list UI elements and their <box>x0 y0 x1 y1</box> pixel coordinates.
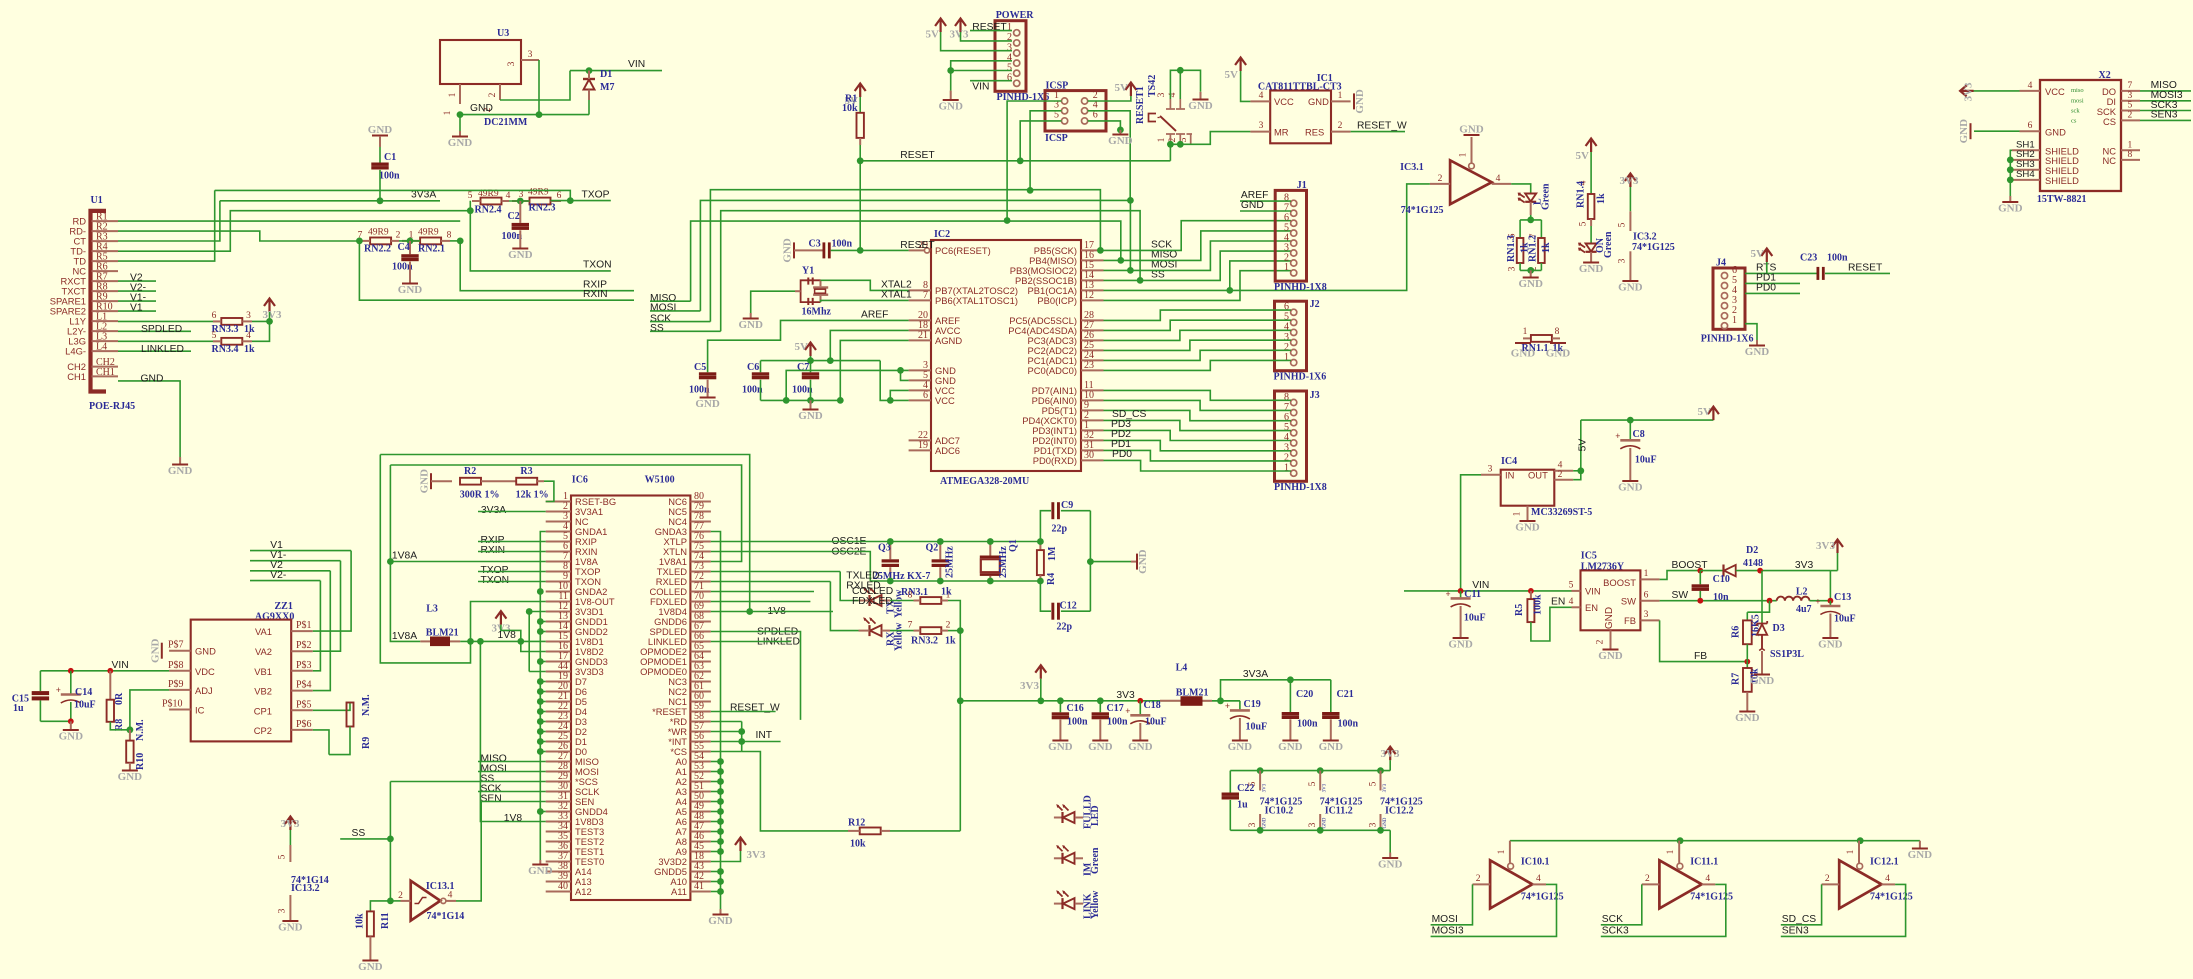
IC2 pin 18 AVCC <box>909 329 931 331</box>
svg-text:+: + <box>1815 597 1820 607</box>
svg-text:3V3: 3V3 <box>281 818 300 830</box>
junction SCK row <box>1097 247 1104 254</box>
wire RN1.4 to LED ON <box>1590 226 1592 244</box>
IC6 pin 43 GNDD5 <box>690 871 711 873</box>
svg-text:ADC6: ADC6 <box>935 445 960 456</box>
svg-text:C1: C1 <box>384 152 396 163</box>
ground at ICSP <box>1119 130 1121 134</box>
svg-text:3: 3 <box>1508 266 1518 271</box>
svg-text:SEN3: SEN3 <box>2151 110 2178 121</box>
svg-text:R5: R5 <box>1514 604 1525 616</box>
wire SS row long to IC13 branch <box>390 781 545 783</box>
wire IC2 pin1 to J3 pin4 <box>1104 430 1292 440</box>
IC6 pin 16 1V8D2 <box>546 651 571 653</box>
capacitor C1 <box>371 163 388 166</box>
svg-text:3V3: 3V3 <box>1381 748 1400 760</box>
svg-text:GND: GND <box>938 101 963 113</box>
wire R11 to input <box>370 901 390 912</box>
capacitor C15 <box>39 671 41 691</box>
IC6 pin 59 *RESET <box>690 711 711 713</box>
svg-text:R6: R6 <box>1731 626 1742 638</box>
wire TXLED row to LED TX <box>711 571 840 573</box>
svg-text:PD0(RXD): PD0(RXD) <box>1033 455 1077 466</box>
svg-text:Yellow: Yellow <box>894 622 905 651</box>
wire MOSI long line <box>700 200 1130 311</box>
svg-text:49R9: 49R9 <box>368 228 389 238</box>
junction SW / R6 riser / L2 <box>1767 598 1773 604</box>
svg-text:10k: 10k <box>355 913 366 929</box>
svg-text:4: 4 <box>1885 874 1890 884</box>
wire LINKLED stub <box>711 641 791 643</box>
svg-text:2: 2 <box>1438 174 1443 184</box>
wire 5V to RN1.4 <box>1590 152 1592 194</box>
svg-text:GND: GND <box>1088 741 1113 753</box>
buffer IC11.1 74*1G125 <box>1659 860 1701 908</box>
svg-text:3V3: 3V3 <box>1816 540 1835 552</box>
supply 3V3 at POWER <box>955 19 966 33</box>
wire U3 pin3 to GND net <box>538 60 540 115</box>
junction OE rail IC11.1 <box>1677 837 1684 844</box>
IC5 pin4 EN <box>1572 606 1581 608</box>
svg-text:C19: C19 <box>1244 699 1261 710</box>
svg-text:4u7: 4u7 <box>1796 604 1812 615</box>
junction R4 bottom / C12 <box>1037 578 1044 585</box>
capacitor C6 <box>760 361 762 373</box>
svg-text:RESET: RESET <box>900 240 935 251</box>
svg-text:1: 1 <box>1497 849 1507 854</box>
svg-text:RESET: RESET <box>1848 263 1883 274</box>
IC1 pin3 <box>1250 131 1270 133</box>
junction TXOP <box>567 197 574 204</box>
svg-text:5: 5 <box>212 331 217 341</box>
svg-text:30: 30 <box>1084 450 1094 461</box>
svg-text:VIN: VIN <box>628 59 645 70</box>
IC2 pin 19 ADC6 <box>909 449 931 451</box>
svg-text:100n: 100n <box>1827 253 1848 264</box>
junction ICSP gnd <box>1117 126 1124 133</box>
wire RN2.1 to R1 riser <box>450 240 460 242</box>
svg-text:5: 5 <box>1248 781 1258 786</box>
svg-text:5V: 5V <box>1115 82 1129 94</box>
svg-text:GND: GND <box>470 103 493 114</box>
svg-text:GND: GND <box>168 465 193 477</box>
wire SS long line <box>721 211 1140 332</box>
svg-text:CH1: CH1 <box>67 371 86 382</box>
wire GND to POWER pin5 <box>951 70 1012 72</box>
svg-text:2: 2 <box>1825 874 1830 884</box>
IC6 pin 50 A4 <box>690 801 711 803</box>
svg-text:ICSP: ICSP <box>1045 133 1068 144</box>
svg-text:PINHD-1X6: PINHD-1X6 <box>1701 334 1754 345</box>
junction U3 pin3 riser / GND wire <box>536 111 543 118</box>
junction PB1 row / J1 pin2 <box>1226 287 1233 294</box>
svg-text:VIN: VIN <box>972 82 989 93</box>
power gate IC10.2 <box>1257 767 1264 774</box>
wire 1V8 row at pin69 <box>711 611 833 613</box>
IC6 pin 42 A10 <box>690 881 711 883</box>
IC2 pin 31 PD1(TXD) <box>1081 449 1104 451</box>
svg-text:3V3: 3V3 <box>950 29 969 41</box>
junction RN3.3/RN3.4/3V3 <box>266 318 273 325</box>
junction 1V8 row / 1V8-OUT riser <box>467 638 474 645</box>
wire IC2 pin2 to J3 pin5 <box>1104 420 1292 430</box>
IC6 pin 12 3V3D1 <box>546 611 571 613</box>
svg-text:RN2.1: RN2.1 <box>418 244 445 255</box>
svg-text:GND: GND <box>1908 849 1933 861</box>
IC6 pin 3 NC <box>546 521 571 523</box>
wire AREF net to C5 <box>708 320 909 372</box>
IC2 pin 3 GND <box>909 369 931 371</box>
U3 pin 3 <box>521 59 539 61</box>
svg-text:PD0: PD0 <box>1112 449 1132 460</box>
IC2 pin 29 PC6(RESET) <box>909 249 925 251</box>
wire IC2 pin9 to J3 pin6 <box>1104 410 1292 420</box>
svg-text:LED: LED <box>1090 805 1101 826</box>
svg-text:R3: R3 <box>520 466 532 477</box>
junction RN2.2 left <box>356 238 363 245</box>
ground below RN1.2/RN1.3 <box>1530 270 1532 277</box>
svg-text:PD0: PD0 <box>1756 283 1776 294</box>
svg-text:PB0(ICP): PB0(ICP) <box>1037 295 1077 306</box>
wire TD- (R4) to TXON bus <box>118 211 470 252</box>
svg-text:8: 8 <box>447 231 452 241</box>
wire RESET line <box>860 160 1170 162</box>
svg-text:3: 3 <box>507 61 517 66</box>
IC6 pin 25 D1 <box>546 741 571 743</box>
svg-text:D2: D2 <box>1746 545 1758 556</box>
junction SS label stub <box>387 836 394 843</box>
svg-text:10uF: 10uF <box>1145 717 1167 728</box>
svg-text:74*1G125: 74*1G125 <box>1401 205 1444 216</box>
svg-text:GND: GND <box>508 249 533 261</box>
wire L3 to RN3.4 <box>118 340 221 342</box>
IC2 pin 8 PB7(XTAL2TOSC2) <box>909 289 931 291</box>
svg-text:GND: GND <box>798 410 823 422</box>
IC6 pin 45 A9 <box>690 851 711 853</box>
IC2 pin 4 VCC <box>909 389 931 391</box>
svg-text:15TW-8821: 15TW-8821 <box>2037 194 2087 205</box>
svg-text:1u: 1u <box>13 703 24 714</box>
resistor R10 (N.M.) <box>129 730 131 741</box>
junction GNDD4 on rail <box>540 811 545 813</box>
junction RESET1 top <box>1177 67 1184 74</box>
X2 pin3 DI / MOSI3 <box>2121 100 2140 102</box>
wire D1 to GND net <box>588 100 590 115</box>
wire right gnd rail (A-bus) <box>711 532 721 910</box>
resistor network RN2.2 <box>370 238 391 245</box>
svg-text:VA1: VA1 <box>255 626 272 637</box>
X2 pin1 NC <box>2121 149 2140 151</box>
svg-text:V1: V1 <box>130 302 143 313</box>
capacitor C12 <box>1040 581 1051 611</box>
IC3.1 bubble pin1 <box>1469 163 1475 169</box>
IC6 pin 34 TEST3 <box>546 831 571 833</box>
wire VIN to POWER pin6 <box>970 80 1012 82</box>
svg-text:1V8A: 1V8A <box>392 551 417 562</box>
svg-text:LINKLED: LINKLED <box>141 344 184 355</box>
ground below C11 <box>1453 637 1469 639</box>
svg-text:GND: GND <box>1735 712 1760 724</box>
svg-text:IC5: IC5 <box>1581 551 1597 562</box>
capacitor C23 <box>1817 267 1820 280</box>
wire INT stub <box>742 741 781 743</box>
svg-text:3V3: 3V3 <box>1263 783 1268 792</box>
supply 5V above RN1.4 <box>1586 139 1597 153</box>
power jack U3 <box>440 40 521 84</box>
svg-text:3V3A: 3V3A <box>1243 669 1268 680</box>
wire ICSP pin6 to GND <box>1088 121 1121 130</box>
junction 1V8 / pin69 row <box>746 608 753 615</box>
IC2 pin 2 PD4(XCKT0) <box>1081 419 1104 421</box>
svg-text:MOSI3: MOSI3 <box>1432 925 1464 936</box>
svg-text:1: 1 <box>1338 91 1343 101</box>
svg-text:5: 5 <box>1569 581 1574 591</box>
svg-text:IC4: IC4 <box>1501 456 1517 467</box>
U1 pin R2 (RD-) <box>92 230 119 232</box>
svg-text:300R 1%: 300R 1% <box>460 490 500 501</box>
wire C23 to RESET <box>1825 272 1890 274</box>
svg-text:5: 5 <box>468 191 473 201</box>
svg-text:SEN3: SEN3 <box>1782 925 1809 936</box>
wire J4 pin6 RTS <box>1745 272 1817 274</box>
svg-text:1k: 1k <box>945 636 956 647</box>
wire ICSP pin1 to MISO line <box>1007 101 1061 221</box>
IC2 pin 11 PD7(AIN1) <box>1081 389 1104 391</box>
svg-text:6: 6 <box>557 191 562 201</box>
svg-text:74*1G14: 74*1G14 <box>427 911 465 922</box>
svg-text:8: 8 <box>2128 150 2133 160</box>
wire D2 to 3V3 <box>1736 570 1831 572</box>
svg-text:IC3.1: IC3.1 <box>1400 162 1424 173</box>
svg-text:GND: GND <box>1319 741 1344 753</box>
wire ICSP pin3 to SCK line <box>1030 111 1061 191</box>
supply 3V3 at buffer rail <box>1385 747 1396 761</box>
svg-text:VDC: VDC <box>195 666 215 677</box>
svg-text:+: + <box>1225 701 1230 711</box>
svg-text:A12: A12 <box>575 886 592 897</box>
svg-text:TXOP: TXOP <box>582 189 610 200</box>
wire SCK long line to ICSP/J-area <box>710 190 1100 322</box>
svg-text:VCC: VCC <box>2045 86 2065 97</box>
junction LED / resistors <box>1527 217 1534 224</box>
IC6 pin 28 MOSI <box>546 771 571 773</box>
svg-text:C11: C11 <box>1464 589 1481 600</box>
resistor R11 <box>367 911 374 936</box>
wire rail to ground <box>1389 830 1391 852</box>
svg-text:GND: GND <box>448 137 473 149</box>
wire U3 pin2 to VIN net <box>500 71 570 100</box>
svg-text:P$6: P$6 <box>296 719 312 730</box>
svg-text:SCK: SCK <box>1602 914 1623 925</box>
wire PB1 row (pin13) to J1 pin2 and IC3.1 <box>1104 184 1430 291</box>
svg-text:SEN: SEN <box>481 793 502 804</box>
wire TXON net <box>470 201 611 271</box>
wire to ground symbol <box>459 115 461 131</box>
junction RESET1 pin2 <box>1177 141 1184 148</box>
svg-text:10k: 10k <box>842 103 858 114</box>
junction 3V3 arrow <box>1037 697 1044 704</box>
junction VCC pins <box>887 397 894 404</box>
IC6 pin 56 *INT <box>690 741 711 743</box>
svg-text:GND: GND <box>1448 639 1473 651</box>
svg-text:2: 2 <box>1558 470 1563 480</box>
svg-text:GND: GND <box>1546 348 1571 360</box>
svg-text:PC6(RESET): PC6(RESET) <box>935 245 991 256</box>
junction L4 / 3V3A riser / C19 <box>1217 697 1224 704</box>
svg-text:N.M.: N.M. <box>135 719 146 741</box>
IC6 pin 2 3V3A1 <box>546 511 571 513</box>
wire IC2 pin26 to J2 pin4 <box>1104 330 1292 340</box>
wire FDXLED stub <box>711 601 811 603</box>
svg-text:IC11.2: IC11.2 <box>1325 806 1353 817</box>
wire AVCC to 5V rail <box>830 330 908 360</box>
wire 3V3 line <box>960 700 1240 702</box>
wire 3V3A net <box>1221 680 1331 701</box>
resistor network RN2.4 <box>481 198 502 205</box>
svg-text:C2: C2 <box>508 211 520 222</box>
svg-text:3: 3 <box>1369 822 1379 827</box>
junction SCK / ICSP pin3 <box>1027 187 1034 194</box>
IC4 pin4 OUT <box>1554 470 1573 472</box>
junction gnd riser <box>1087 558 1094 565</box>
svg-text:+: + <box>56 685 61 695</box>
junction RESET1 pin1 <box>1167 141 1174 148</box>
wire OUT/pin2 to 5V node <box>1573 470 1581 472</box>
wire L4 to 3V3A node <box>1212 700 1240 702</box>
wire FB to divider <box>1660 620 1748 661</box>
svg-text:VB2: VB2 <box>254 686 272 697</box>
supply 3V3 above <box>1832 540 1843 554</box>
wire CS node to R12 <box>742 752 848 831</box>
connector U1 POE-RJ45 <box>91 211 107 392</box>
svg-text:GND: GND <box>1137 549 1149 574</box>
svg-text:10uF: 10uF <box>74 700 96 711</box>
resistor R7 10k <box>1746 662 1748 668</box>
svg-text:3: 3 <box>246 311 251 321</box>
capacitor C14 (pol) <box>70 671 72 695</box>
svg-text:RN2.2: RN2.2 <box>364 244 391 255</box>
wire COLLED stub <box>711 591 814 593</box>
junction Q1 bottom <box>987 578 994 585</box>
junction VIN / D1 <box>586 67 593 74</box>
IC3.1 pin2 input <box>1430 183 1450 185</box>
svg-text:+: + <box>1446 589 1451 599</box>
wire R1 to RESET line <box>859 145 861 161</box>
svg-text:RN3.4: RN3.4 <box>212 344 239 355</box>
U1 pin R8 (TXCT) <box>92 290 119 292</box>
svg-text:2: 2 <box>488 92 498 97</box>
junction 1V8 row / 1V8 rail <box>477 638 484 645</box>
junction IC13 input / R11 <box>387 898 394 905</box>
junction R4 top / C9 <box>1037 538 1044 545</box>
resistor RN3.1 <box>890 600 914 602</box>
ground below IC13.2 <box>282 920 298 922</box>
IC6 pin 24 D2 <box>546 731 571 733</box>
wire PB0 row (pin12) to J1 pin1 <box>1104 271 1292 301</box>
junction MOSI / ICSP pin4 <box>1127 197 1134 204</box>
svg-text:ADJ: ADJ <box>195 685 213 696</box>
svg-text:12: 12 <box>1084 290 1094 301</box>
svg-text:GND: GND <box>1518 278 1543 290</box>
wire 3V3D1 to 3V3D3 <box>529 611 546 613</box>
junction gnd rail / GND pins drop <box>783 397 790 404</box>
wire CP2 jog <box>313 730 329 755</box>
junction Q3 bottom <box>887 578 894 585</box>
svg-text:GND: GND <box>1750 675 1775 687</box>
wire IC2 pin31 to J3 pin2 <box>1104 450 1292 461</box>
wire GND to C1 <box>379 140 381 163</box>
wire pin16 riser to 1V8 row <box>521 641 546 651</box>
svg-text:5V: 5V <box>1576 150 1590 162</box>
junction VIN / R8 <box>107 668 113 674</box>
svg-text:PINHD-1X8: PINHD-1X8 <box>1274 482 1327 493</box>
svg-text:GND: GND <box>1263 817 1268 828</box>
ground below R7 <box>1739 711 1755 713</box>
junction OE rail IC12.1 <box>1857 837 1864 844</box>
ground below C2 <box>512 248 528 250</box>
svg-text:GND: GND <box>1308 96 1329 107</box>
IC6 pin 20 D6 <box>546 691 571 693</box>
wire R8 to R10 node <box>110 722 130 730</box>
ZZ1 right pins P$1..P$6 <box>291 630 313 632</box>
svg-text:10uF: 10uF <box>1246 722 1268 733</box>
junction 5V rail / C7 <box>807 357 814 364</box>
junction 1V8A <box>387 558 394 565</box>
wire IC2 pin28 to J2 pin6 <box>1104 310 1292 320</box>
wire R12 to 3V3 riser <box>890 830 960 832</box>
ground below C7 <box>810 400 812 409</box>
ground below C5 <box>700 397 716 399</box>
svg-text:5: 5 <box>1579 221 1589 226</box>
svg-text:IC3.2: IC3.2 <box>1633 232 1657 243</box>
svg-text:GND: GND <box>1378 859 1403 871</box>
junction VIN / C14 <box>68 668 74 674</box>
svg-text:IC2: IC2 <box>934 229 950 240</box>
svg-text:RXIN: RXIN <box>583 289 608 300</box>
junction GND pins <box>897 367 904 374</box>
svg-text:GND: GND <box>1228 741 1253 753</box>
IC6 pin 79 NC5 <box>690 511 711 513</box>
junction RN2.1-RN2.2 / C4 <box>407 238 414 245</box>
svg-text:5V: 5V <box>1225 69 1239 81</box>
U1 pin L2 (L2Y-) <box>92 330 119 332</box>
wire RN2.3 to TXOP <box>551 200 611 202</box>
IC6 pin 39 A13 <box>546 881 571 883</box>
svg-text:1k: 1k <box>1596 193 1607 204</box>
svg-text:1: 1 <box>1666 849 1676 854</box>
svg-text:4: 4 <box>1259 91 1264 101</box>
svg-text:SW: SW <box>1621 596 1636 607</box>
IC6 pin 23 D3 <box>546 721 571 723</box>
capacitor C11 (pol) <box>1460 591 1462 599</box>
diode D3 SS1P3L <box>1761 571 1763 624</box>
svg-text:5V: 5V <box>926 29 940 41</box>
resistor RN1.1 <box>1523 337 1531 339</box>
svg-text:CP2: CP2 <box>254 725 272 736</box>
svg-text:A11: A11 <box>671 886 687 897</box>
capacitor C5 <box>699 372 716 375</box>
wire RXIN net <box>359 241 634 300</box>
svg-text:VCC: VCC <box>1274 96 1294 107</box>
wire RN3.1 to 3V3 riser <box>948 601 960 631</box>
IC2 pin 20 AREF <box>909 319 931 321</box>
wire MOSI to IC10.1 <box>1431 884 1473 924</box>
ground below buffer rail <box>1382 857 1398 859</box>
svg-text:IC13.2: IC13.2 <box>291 883 320 894</box>
svg-text:1k: 1k <box>244 344 255 355</box>
wire GNDA1 to gnd rail <box>540 532 545 861</box>
crystal Q1 25MHz <box>989 542 991 556</box>
